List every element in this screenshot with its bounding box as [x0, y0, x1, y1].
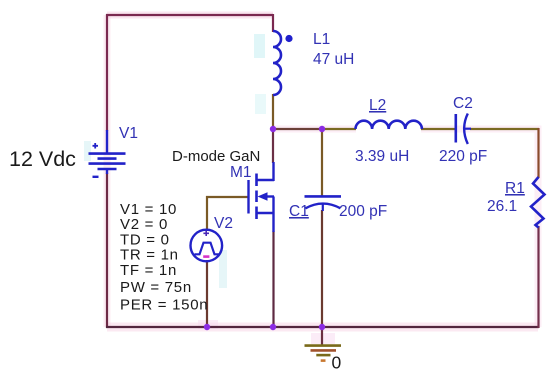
value label 200 pF: [339, 203, 387, 220]
label C2: [453, 95, 473, 112]
wire: bottom rail: [106, 326, 539, 328]
svg-text:200 pF: 200 pF: [339, 203, 387, 220]
svg-text:L1: L1: [313, 31, 330, 48]
svg-text:V2: V2: [214, 215, 233, 232]
wire: V2 gate wire: [206, 196, 249, 198]
svg-text:M1: M1: [230, 164, 252, 181]
voltage source V1 battery: [89, 130, 126, 177]
wire: C1 branch bottom: [321, 210, 323, 328]
svg-text:TF = 1n: TF = 1n: [120, 262, 177, 279]
junction dot V2 bottom: [204, 324, 210, 330]
junction dot ground node: [319, 324, 325, 330]
svg-text:TR = 1n: TR = 1n: [120, 247, 179, 264]
junction dot M1 source: [270, 324, 276, 330]
svg-text:0: 0: [332, 353, 342, 373]
label M1: [230, 164, 252, 181]
wire bottom rail halo: [107, 323, 538, 332]
wire: left rail V1 bottom: [106, 173, 108, 328]
label R1: [505, 180, 525, 197]
artifact smudges: [84, 34, 335, 344]
value label 26.1: [487, 198, 517, 215]
svg-text:V2 = 0: V2 = 0: [120, 216, 168, 233]
label D-mode GaN: [172, 148, 260, 165]
label L1: [313, 31, 330, 48]
svg-text:47 uH: 47 uH: [313, 51, 354, 68]
pulse source V2: [191, 230, 223, 262]
V2 parameter list: [120, 201, 208, 314]
value label 220 pF: [439, 148, 487, 165]
label L2: [369, 97, 386, 114]
capacitor C1: [305, 196, 342, 211]
svg-text:220 pF: 220 pF: [439, 148, 487, 165]
wire: right rail below R1: [537, 226, 539, 328]
label C1: [289, 203, 309, 220]
wire: right rail above R1: [537, 128, 539, 178]
svg-text:C1: C1: [289, 203, 309, 220]
L1 pin 1 dot: [285, 35, 292, 42]
wire: L1 top stub: [272, 14, 274, 32]
wire mid rail halo: [273, 129, 538, 327]
svg-text:C2: C2: [453, 95, 473, 112]
svg-text:R1: R1: [505, 180, 525, 197]
wire left rail halo: [104, 15, 111, 327]
wire: V2 bottom stub: [206, 260, 208, 328]
net label 0: [332, 353, 342, 373]
value label 47 uH: [313, 51, 354, 68]
node B junction dot (C1 top tap): [319, 126, 325, 132]
label V2: [214, 215, 233, 232]
wire: left rail V1 top: [106, 14, 108, 131]
svg-text:PER = 150n: PER = 150n: [120, 297, 208, 314]
svg-text:L2: L2: [369, 97, 386, 114]
wire: L2 to C2: [421, 128, 456, 130]
inductor L2: [356, 121, 422, 129]
wire: C1 branch top: [321, 128, 323, 196]
svg-text:V1: V1: [119, 125, 138, 142]
wire: M1 drain from node A: [272, 128, 274, 163]
capacitor C2: [456, 114, 471, 145]
ground symbol 0: [305, 346, 342, 361]
svg-text:26.1: 26.1: [487, 198, 517, 215]
wire: ground stub: [321, 327, 323, 345]
label V1: [119, 125, 138, 142]
value label 3.39 uH: [355, 148, 409, 165]
wire: top rail from V1 to L1: [106, 14, 273, 16]
svg-text:3.39 uH: 3.39 uH: [355, 148, 409, 165]
value label 12 Vdc: [9, 147, 76, 171]
node A junction dot (L1/M1/mid rail): [270, 126, 276, 132]
transistor M1 D-mode GaN MOSFET: [249, 162, 275, 232]
wire top rail halo: [107, 12, 273, 19]
wire: L1 bottom to mid node: [272, 94, 274, 130]
wire: V2 top stub: [206, 196, 208, 231]
svg-text:12 Vdc: 12 Vdc: [9, 147, 76, 171]
svg-text:D-mode GaN: D-mode GaN: [172, 148, 260, 165]
wire: C2 to right corner: [470, 128, 539, 130]
resistor R1: [531, 177, 545, 228]
inductor L1: [273, 31, 281, 95]
svg-text:PW = 75n: PW = 75n: [120, 279, 192, 296]
wire: M1 source to bottom rail: [272, 231, 274, 328]
wire: mid rail node A to L2: [272, 128, 356, 130]
